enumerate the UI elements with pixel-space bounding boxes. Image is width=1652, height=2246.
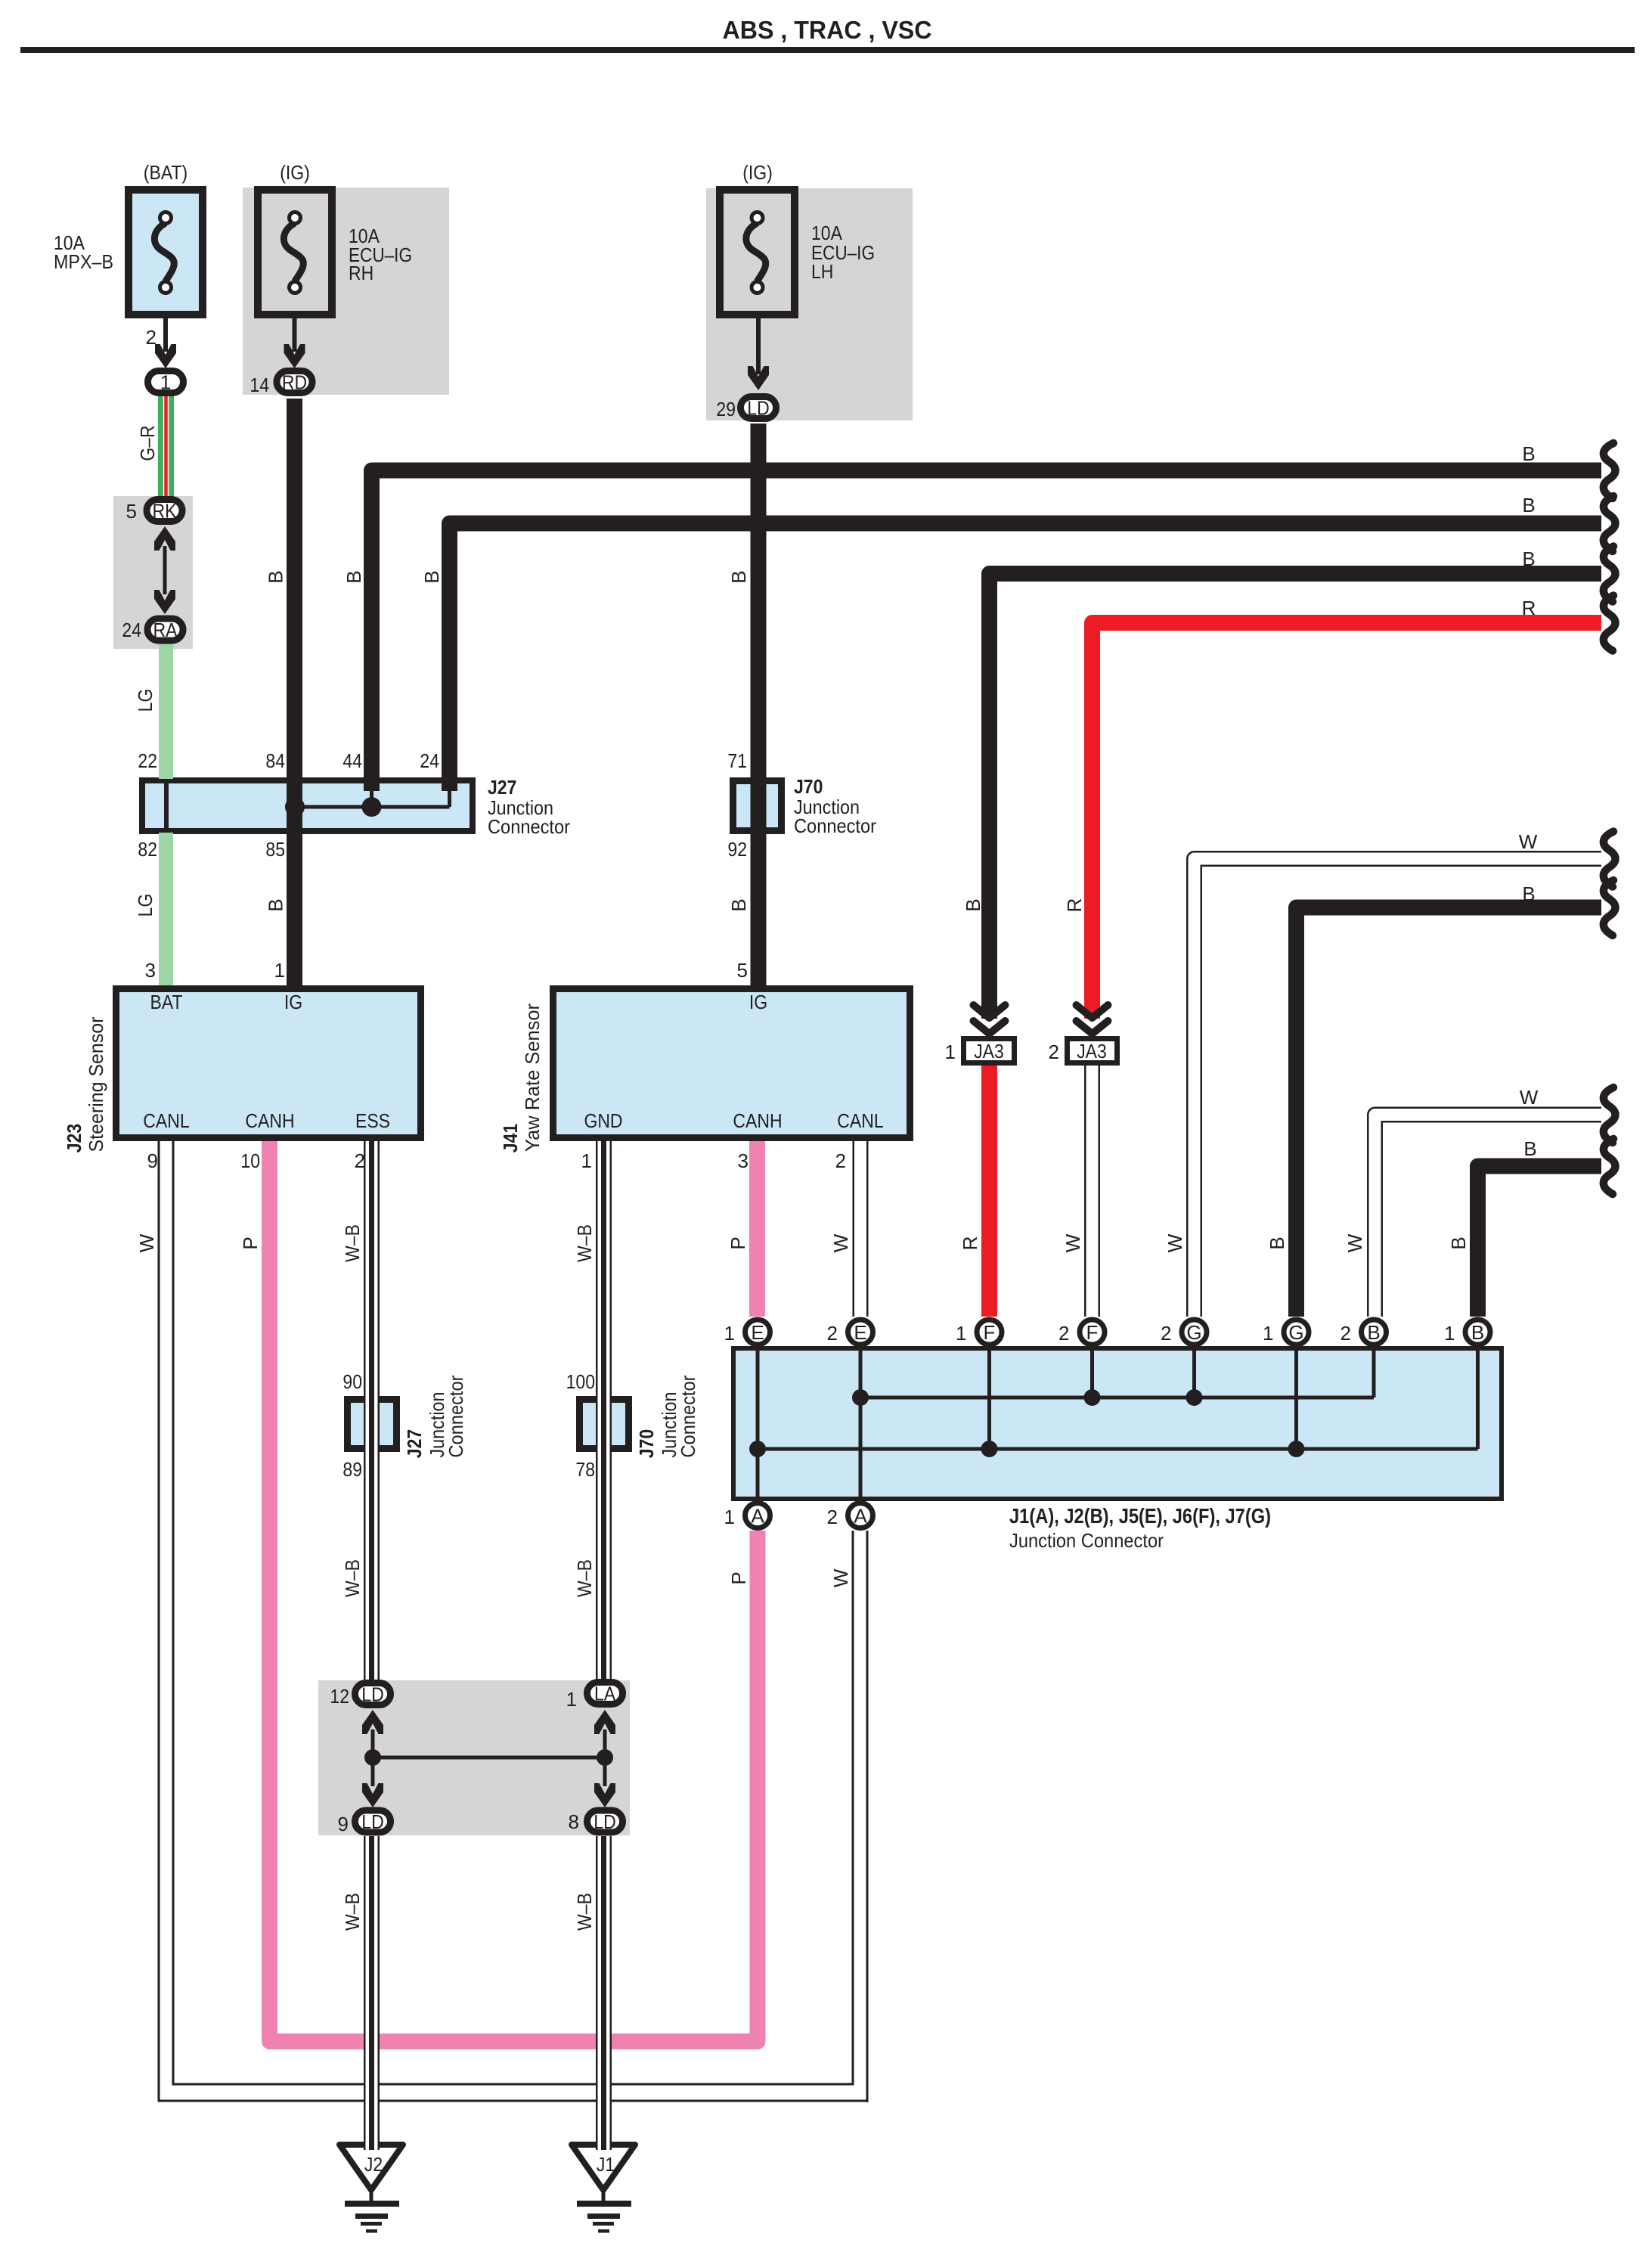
JA3 connector 1 arrows (974, 1005, 1006, 1034)
wire label G-R (136, 425, 159, 461)
svg-text:Connector: Connector (677, 1375, 699, 1457)
wire break curl B1 (1604, 443, 1616, 498)
svg-text:100: 100 (566, 1370, 595, 1393)
svg-text:44: 44 (342, 749, 362, 772)
wire label pin row (1062, 1233, 1084, 1252)
connector oval RA pin 24 (147, 619, 183, 641)
wire label R below J27/J70 (1063, 898, 1086, 913)
wire label mid (573, 1893, 596, 1931)
svg-text:B: B (1266, 1236, 1288, 1249)
yaw rate sensor J41 box (553, 989, 910, 1138)
svg-text:B: B (1522, 442, 1535, 465)
svg-text:1: 1 (724, 1506, 735, 1528)
JA3 connector 2 box (1068, 1039, 1117, 1063)
fuse ECU-IG RH stem and arrow (284, 318, 305, 368)
wire label pin row (341, 1224, 364, 1262)
connector oval LD pin 9 (355, 1810, 391, 1833)
svg-text:9: 9 (147, 1149, 158, 1172)
wire label pin row (829, 1233, 852, 1252)
svg-text:F: F (1086, 1321, 1099, 1344)
svg-text:Connector: Connector (445, 1375, 467, 1457)
wire label B below J27/J70 (727, 898, 750, 911)
ground J2 label and bars (345, 2153, 399, 2233)
svg-text:J70: J70 (635, 1429, 658, 1458)
wire label pin row (959, 1236, 981, 1251)
fuse 10A ECU-IG LH (720, 190, 795, 315)
pin 29 (716, 398, 736, 420)
wire W-B yaw GND upper (596, 1141, 612, 1680)
pin 10 (240, 1149, 260, 1172)
svg-text:W–B: W–B (341, 1559, 364, 1597)
node 1F (956, 1320, 1002, 1345)
svg-text:LG: LG (134, 894, 157, 917)
pin 85 (265, 838, 285, 861)
wire label right edge B (1522, 494, 1535, 517)
svg-text:24: 24 (122, 619, 141, 641)
link between LD pairs (364, 1749, 613, 1766)
svg-text:29: 29 (716, 398, 736, 420)
wire break curl B5 (1604, 1139, 1616, 1194)
label J23 Steering Sensor (63, 1016, 107, 1152)
label J1(A), J2(B), J5(E), J6(F), J7(G) Junction Connector (1009, 1504, 1271, 1552)
connector oval RK pin 5 (147, 500, 182, 523)
wire W-B yaw GND lower to ground J1 (596, 1836, 612, 2150)
wire label mid (573, 1559, 596, 1597)
svg-text:8: 8 (569, 1810, 579, 1833)
steering pin names (143, 991, 390, 1132)
svg-text:G–R: G–R (136, 425, 159, 461)
junction connector J1/J2/J5/J6/J7 box (733, 1348, 1502, 1499)
wire label pin row (1447, 1236, 1470, 1249)
RK-RA mating arrows (154, 526, 175, 614)
wire LG from RA to steering sensor BAT through J27 (159, 644, 173, 985)
svg-text:CANL: CANL (143, 1109, 189, 1132)
svg-text:B: B (1447, 1236, 1470, 1249)
svg-text:3: 3 (145, 959, 156, 982)
svg-text:BAT: BAT (150, 991, 183, 1013)
wire label right edge B (1522, 442, 1535, 465)
wire label right edge B (1522, 883, 1535, 905)
svg-text:ABS , TRAC , VSC: ABS , TRAC , VSC (723, 16, 932, 44)
svg-text:B: B (727, 570, 750, 583)
wire B fuse ECU-IG LH to J70 pin 71/92 to yaw rate sensor IG (751, 423, 767, 985)
value label 10A ECU-IG LH (811, 222, 875, 283)
junction connector J27 box (lower) (348, 1400, 397, 1449)
wire break curl W1 (1604, 832, 1616, 887)
wire B second feed to J27 pin 24 (450, 523, 1602, 791)
node 2A (827, 1503, 873, 1529)
wire label right edge B (1523, 1137, 1536, 1160)
svg-text:LG: LG (134, 689, 157, 712)
svg-text:2: 2 (827, 1322, 838, 1345)
svg-text:89: 89 (342, 1458, 362, 1481)
svg-text:(BAT): (BAT) (144, 161, 188, 184)
label J41 Yaw Rate Sensor (499, 1004, 544, 1153)
svg-text:Connector: Connector (488, 815, 570, 838)
wire break curl B3 (1604, 547, 1616, 602)
svg-text:(IG): (IG) (280, 161, 310, 184)
pin 5 yawIG (737, 959, 748, 982)
pin 5 (126, 500, 137, 523)
svg-text:A: A (751, 1505, 764, 1528)
pin 2 ESS (355, 1149, 365, 1172)
svg-text:Yaw Rate Sensor: Yaw Rate Sensor (521, 1004, 544, 1152)
svg-text:B: B (1367, 1321, 1380, 1344)
svg-text:78: 78 (575, 1458, 595, 1481)
pin 89 (342, 1458, 362, 1481)
svg-text:F: F (984, 1321, 996, 1344)
svg-text:1: 1 (566, 1688, 577, 1711)
svg-text:2: 2 (146, 326, 157, 349)
J27 internal bus (285, 791, 450, 817)
wire W yaw CANL to junction connector 2E (853, 1141, 869, 1317)
wire label pin row (1344, 1233, 1366, 1252)
pin 82 (138, 838, 157, 861)
wire label right edge B (1522, 548, 1535, 570)
wire W-B steering ESS lower to ground J2 (364, 1836, 380, 2150)
svg-text:W: W (135, 1233, 158, 1252)
LD-LD mating arrows (362, 1710, 383, 1807)
title ABS , TRAC , VSC (723, 16, 932, 44)
pin 24 J27 (420, 749, 439, 772)
svg-text:85: 85 (265, 838, 285, 861)
wire W from JA3 2 to junction connector 2F (1084, 1066, 1100, 1317)
wire W-B steering ESS upper (364, 1141, 380, 1680)
svg-text:J41: J41 (499, 1124, 522, 1152)
pin 71 (727, 749, 747, 772)
wire break curl B2 (1604, 496, 1616, 551)
svg-text:RH: RH (349, 262, 373, 284)
pin 44 (342, 749, 362, 772)
svg-text:IG: IG (749, 991, 767, 1013)
wire label mid (341, 1559, 364, 1597)
svg-text:P: P (239, 1236, 262, 1249)
wire label pin row (239, 1236, 262, 1249)
node 1G (1263, 1320, 1309, 1345)
ground J2 (339, 2145, 403, 2190)
svg-text:RA: RA (153, 619, 178, 641)
pin 12 (330, 1685, 349, 1708)
pin 1 GND (581, 1149, 592, 1172)
node 1B (1444, 1320, 1490, 1345)
svg-text:B: B (1471, 1321, 1484, 1344)
pin 3 CANH (738, 1149, 749, 1172)
wire W steering CANL to junction connector 2A (158, 1141, 869, 2102)
svg-text:1: 1 (581, 1149, 592, 1172)
wire label B (265, 570, 287, 583)
svg-text:B: B (962, 898, 984, 911)
svg-text:2: 2 (355, 1149, 365, 1172)
wire label mid (341, 1893, 364, 1931)
wire label right edge R (1522, 597, 1536, 619)
svg-text:5: 5 (737, 959, 748, 982)
fuse ECU-IG LH background panel (706, 188, 913, 420)
svg-text:B: B (420, 570, 443, 583)
svg-text:W: W (1520, 1086, 1539, 1109)
svg-text:JA3: JA3 (1077, 1040, 1107, 1063)
svg-text:B: B (1522, 883, 1535, 905)
svg-text:2: 2 (827, 1506, 838, 1528)
svg-text:1: 1 (1263, 1322, 1273, 1345)
wire B to junction connector 1B (1478, 1166, 1602, 1317)
junction connector J70 box (upper) (733, 781, 782, 831)
wire B feed to JA3 pin 1 (990, 574, 1602, 1019)
JA3 pin 1 label (945, 1041, 956, 1063)
svg-text:CANH: CANH (245, 1109, 294, 1132)
svg-text:LA: LA (594, 1683, 616, 1705)
svg-text:B: B (265, 570, 287, 583)
svg-text:1: 1 (274, 959, 285, 982)
svg-text:2: 2 (1049, 1041, 1059, 1063)
svg-text:1: 1 (160, 371, 171, 394)
pin 1 IG (274, 959, 285, 982)
wire R from JA3 1 to junction connector 1F (981, 1066, 997, 1317)
wire label B (727, 570, 750, 583)
svg-text:CANH: CANH (733, 1109, 782, 1132)
svg-text:CANL: CANL (837, 1109, 883, 1132)
connector oval LD pin 12 (355, 1683, 391, 1706)
svg-text:E: E (751, 1321, 764, 1344)
steering sensor J23 box (116, 989, 421, 1138)
svg-text:2: 2 (1341, 1322, 1351, 1345)
node 1A (724, 1503, 770, 1529)
fuse ECU-IG LH stem and arrow (748, 318, 769, 390)
node 2F (1058, 1320, 1105, 1345)
svg-text:W–B: W–B (573, 1893, 596, 1931)
fuse 10A ECU-IG RH (258, 190, 332, 315)
svg-text:LD: LD (747, 397, 769, 420)
svg-text:5: 5 (126, 500, 137, 523)
wire label LG below J27/J70 (134, 894, 157, 917)
ground J1 label and bars (577, 2153, 631, 2233)
wire B fuse ECU-IG RH to J27 pin 84/85 to steering sensor IG (287, 399, 302, 985)
label J70 Junction Connector (upper) (794, 775, 876, 837)
svg-text:90: 90 (342, 1370, 362, 1393)
svg-text:14: 14 (250, 374, 269, 396)
svg-text:LD: LD (594, 1810, 615, 1833)
svg-text:W: W (1519, 830, 1538, 853)
pin 8 LD (569, 1810, 579, 1833)
svg-text:W–B: W–B (341, 1224, 364, 1262)
svg-text:LH: LH (811, 260, 833, 283)
svg-text:92: 92 (727, 838, 747, 861)
wire label B below J27/J70 (962, 898, 984, 911)
svg-text:B: B (1523, 1137, 1536, 1160)
label J70 Junction Connector (lower, rotated) (635, 1375, 699, 1458)
svg-text:1: 1 (956, 1322, 966, 1345)
wire label B (342, 570, 365, 583)
svg-text:22: 22 (138, 749, 157, 772)
svg-text:B: B (342, 570, 365, 583)
wire label mid (727, 1571, 750, 1584)
value label 10A MPX-B (54, 231, 113, 273)
svg-text:E: E (854, 1321, 866, 1344)
svg-text:J23: J23 (63, 1124, 85, 1152)
label (BAT) (144, 161, 188, 184)
svg-text:MPX–B: MPX–B (54, 250, 113, 273)
wire label right edge W (1520, 1086, 1539, 1109)
pin 9 LD (338, 1813, 349, 1835)
svg-text:J70: J70 (794, 775, 823, 798)
svg-text:P: P (727, 1236, 749, 1249)
svg-text:9: 9 (338, 1813, 349, 1835)
svg-text:J2: J2 (364, 2153, 383, 2176)
fuse 10A MPX-B (129, 190, 203, 315)
svg-text:2: 2 (1161, 1322, 1171, 1345)
label J27 Junction Connector (bus) (488, 776, 570, 838)
svg-text:LD: LD (361, 1683, 383, 1706)
junction connector J27 bus box (142, 780, 473, 831)
pin 14 (250, 374, 269, 396)
svg-text:J1: J1 (597, 2153, 615, 2176)
connector LD/LA background panel (318, 1680, 630, 1835)
node 2G (1161, 1320, 1207, 1345)
connector oval LD pin 29 (741, 397, 776, 420)
svg-text:Steering Sensor: Steering Sensor (85, 1016, 107, 1152)
svg-text:GND: GND (584, 1109, 622, 1132)
svg-text:R: R (1522, 597, 1536, 619)
svg-text:W–B: W–B (341, 1893, 364, 1931)
wire label pin row (1164, 1233, 1186, 1252)
node 2B (1341, 1320, 1387, 1345)
wire G-R from connector 1 to RK (158, 396, 174, 497)
svg-text:24: 24 (420, 749, 439, 772)
label (IG) RH (280, 161, 310, 184)
svg-text:W: W (1344, 1233, 1366, 1252)
pin 3 (145, 959, 156, 982)
svg-text:J1(A), J2(B), J5(E), J6(F), J7: J1(A), J2(B), J5(E), J6(F), J7(G) (1009, 1504, 1271, 1528)
svg-text:84: 84 (265, 749, 285, 772)
pin 1 LA (566, 1688, 577, 1711)
svg-text:B: B (727, 898, 750, 911)
connector RK/RA background panel (113, 496, 193, 649)
svg-text:W: W (1164, 1233, 1186, 1252)
wire break curl W2 (1604, 1087, 1616, 1143)
svg-text:B: B (265, 898, 287, 911)
svg-text:LD: LD (361, 1810, 383, 1833)
pin 24 RA (122, 619, 141, 641)
pin 78 (575, 1458, 595, 1481)
svg-text:J27: J27 (488, 776, 516, 799)
svg-text:P: P (727, 1571, 750, 1584)
divider in J27 bus box (164, 780, 169, 831)
svg-text:(IG): (IG) (742, 161, 773, 184)
pin 2 (146, 326, 157, 349)
svg-text:82: 82 (138, 838, 157, 861)
LA-LD mating arrows (594, 1710, 615, 1807)
wire label mid (829, 1568, 852, 1587)
pin 100 (566, 1370, 595, 1393)
pin 2 CANL (835, 1149, 846, 1172)
svg-text:Connector: Connector (794, 814, 876, 837)
label (IG) LH (742, 161, 773, 184)
pin 92 (727, 838, 747, 861)
svg-text:IG: IG (284, 991, 302, 1013)
wire label pin row (1266, 1236, 1288, 1249)
svg-text:B: B (1522, 548, 1535, 570)
svg-text:3: 3 (738, 1149, 749, 1172)
node 1E (724, 1320, 770, 1345)
wire B to junction connector 1G (1297, 907, 1602, 1317)
pin 84 (265, 749, 285, 772)
header rule (20, 47, 1635, 53)
JA3 connector 2 arrows (1077, 1005, 1108, 1034)
svg-text:1: 1 (1444, 1322, 1455, 1345)
svg-text:2: 2 (1058, 1322, 1069, 1345)
yaw pin names (584, 991, 883, 1132)
wire label right edge W (1519, 830, 1538, 853)
wire label pin row (135, 1233, 158, 1252)
value label 10A ECU-IG RH (349, 225, 412, 284)
pin 9 (147, 1149, 158, 1172)
wire W to junction connector 2G (1195, 859, 1602, 1317)
svg-text:R: R (959, 1236, 981, 1251)
svg-text:W: W (829, 1568, 852, 1587)
wire P yaw CANH to junction connector 1E (749, 1141, 765, 1317)
svg-text:G: G (1288, 1321, 1303, 1344)
svg-text:W: W (1062, 1233, 1084, 1252)
wire break curl B4 (1604, 880, 1616, 935)
connector oval LA pin 1 (587, 1683, 623, 1705)
svg-text:71: 71 (727, 749, 747, 772)
JA3 connector 1 box (964, 1039, 1015, 1063)
svg-text:A: A (854, 1505, 867, 1528)
wire W to junction connector 2B (1375, 1115, 1602, 1317)
wire label pin row (727, 1236, 749, 1249)
junction box internal buses and pins (749, 1346, 1478, 1501)
svg-text:RD: RD (282, 371, 307, 394)
JA3 pin 2 label (1049, 1041, 1059, 1063)
junction connector J70 box (lower) (580, 1400, 629, 1449)
svg-text:RK: RK (153, 500, 178, 523)
svg-text:R: R (1063, 898, 1086, 913)
ground J1 (572, 2145, 635, 2190)
svg-text:B: B (1522, 494, 1535, 517)
wire label B (420, 570, 443, 583)
svg-text:10: 10 (240, 1149, 260, 1172)
svg-text:JA3: JA3 (974, 1040, 1004, 1063)
svg-text:2: 2 (835, 1149, 846, 1172)
wire P steering CANH to junction connector 1A (270, 1141, 758, 2042)
wire label pin row (573, 1224, 596, 1262)
svg-text:W: W (829, 1233, 852, 1252)
connector oval 1 (148, 371, 184, 394)
svg-text:Junction Connector: Junction Connector (1009, 1529, 1164, 1552)
connector oval RD pin 14 (277, 371, 312, 394)
svg-text:1: 1 (945, 1041, 956, 1063)
pin 90 (342, 1370, 362, 1393)
svg-text:12: 12 (330, 1685, 349, 1708)
svg-text:J27: J27 (403, 1429, 426, 1458)
wire R feed to JA3 pin 2 (1093, 623, 1602, 1019)
wire label B below J27/J70 (265, 898, 287, 911)
svg-text:W–B: W–B (573, 1224, 596, 1262)
wire label LG (134, 689, 157, 712)
svg-text:1: 1 (724, 1322, 735, 1345)
fuse MPX-B pin 2 stem and arrow (155, 318, 176, 368)
wire break curl R (1604, 596, 1616, 651)
pin 22 (138, 749, 157, 772)
svg-text:ESS: ESS (355, 1109, 390, 1132)
wire B top feed to J27 pin 44 (372, 470, 1602, 791)
label J27 Junction Connector (lower, rotated) (403, 1375, 467, 1458)
node 2E (827, 1320, 873, 1345)
svg-text:G: G (1186, 1321, 1201, 1344)
fuse ECU-IG RH background panel (243, 188, 449, 395)
connector oval LD pin 8 (587, 1810, 623, 1833)
svg-text:W–B: W–B (573, 1559, 596, 1597)
